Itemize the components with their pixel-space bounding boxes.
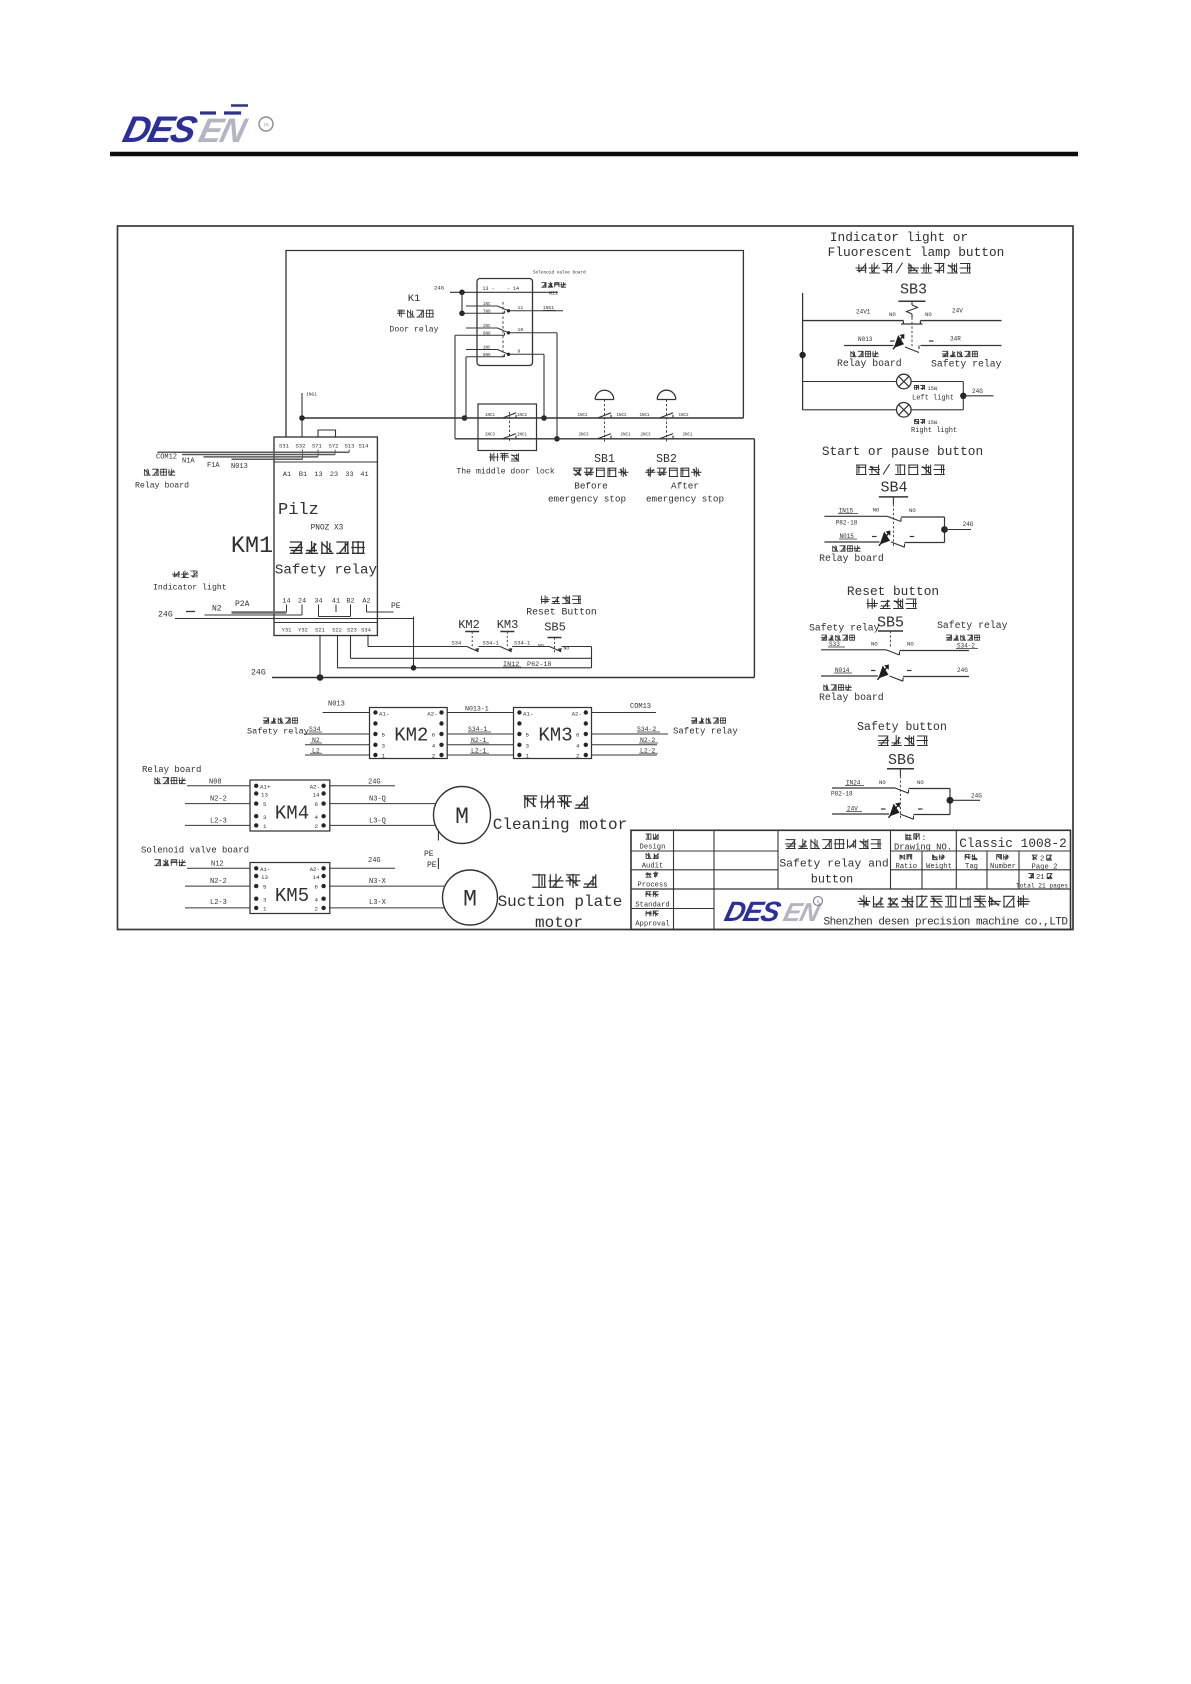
- svg-text:Drawing NO.: Drawing NO.: [894, 843, 952, 853]
- svg-text:L3-Q: L3-Q: [369, 818, 386, 826]
- svg-text:Relay board: Relay board: [837, 358, 902, 369]
- svg-text:Left light: Left light: [912, 395, 954, 403]
- svg-text:NO: NO: [909, 507, 916, 514]
- svg-text:P82-18: P82-18: [836, 520, 858, 527]
- svg-text:Fluorescent lamp button: Fluorescent lamp button: [828, 245, 1005, 260]
- svg-text:N12: N12: [211, 861, 224, 869]
- svg-text:1NG1: 1NG1: [306, 392, 317, 398]
- svg-text:emergency stop: emergency stop: [548, 494, 626, 505]
- svg-text:S34-1: S34-1: [514, 641, 530, 647]
- svg-text:S22: S22: [332, 628, 342, 634]
- svg-text:PNOZ X3: PNOZ X3: [311, 525, 344, 533]
- svg-text:5: 5: [263, 884, 267, 891]
- svg-text:4: 4: [315, 896, 319, 903]
- svg-text:N3-Q: N3-Q: [369, 796, 386, 804]
- svg-text:- 14: - 14: [507, 286, 519, 292]
- svg-text:KM2: KM2: [394, 725, 428, 747]
- svg-text:COM13: COM13: [630, 703, 651, 711]
- svg-text:SB3: SB3: [900, 282, 927, 299]
- svg-text:14: 14: [313, 791, 320, 798]
- svg-text:Design: Design: [640, 844, 666, 852]
- svg-text:S23: S23: [347, 628, 357, 634]
- svg-text:6: 6: [432, 732, 436, 739]
- svg-text:KM3: KM3: [497, 618, 519, 632]
- svg-text:Before: Before: [574, 481, 607, 492]
- svg-text:Ratio: Ratio: [896, 863, 918, 871]
- svg-text:4: 4: [432, 742, 436, 749]
- svg-text:11: 11: [518, 305, 524, 311]
- svg-text:Right light: Right light: [911, 427, 957, 435]
- svg-text:24G: 24G: [957, 667, 968, 674]
- svg-text:COM12: COM12: [156, 454, 177, 462]
- svg-text:A1-: A1-: [260, 866, 270, 873]
- svg-text:34R: 34R: [950, 336, 961, 343]
- svg-text:A1: A1: [283, 471, 291, 479]
- svg-text:Standard: Standard: [635, 901, 670, 909]
- svg-text:Number: Number: [990, 863, 1016, 871]
- svg-text:PE: PE: [427, 861, 437, 870]
- svg-text:Safety relay: Safety relay: [247, 727, 309, 737]
- svg-text:S34-1: S34-1: [483, 641, 499, 647]
- svg-text:24G: 24G: [434, 285, 444, 292]
- svg-text:2NC3: 2NC3: [579, 434, 590, 438]
- svg-text:A2: A2: [362, 598, 370, 606]
- svg-text:A1-: A1-: [523, 711, 533, 718]
- svg-text:TM: TM: [263, 125, 269, 129]
- svg-text:N013: N013: [858, 336, 873, 343]
- svg-text:Pilz: Pilz: [278, 501, 319, 520]
- svg-text:IN12: IN12: [503, 661, 519, 669]
- svg-text:S34: S34: [361, 628, 371, 634]
- svg-text:1NC2: 1NC2: [617, 414, 628, 418]
- svg-text:24G: 24G: [368, 857, 381, 865]
- svg-text:Cleaning motor: Cleaning motor: [493, 816, 627, 834]
- svg-text:1NC1: 1NC1: [578, 414, 589, 418]
- svg-text:7NO: 7NO: [483, 311, 491, 315]
- svg-text:A1+: A1+: [260, 783, 271, 790]
- svg-text:Safety relay: Safety relay: [809, 623, 880, 634]
- svg-text:Suction plate: Suction plate: [498, 893, 623, 911]
- svg-text:3: 3: [263, 814, 267, 821]
- svg-text:N08: N08: [209, 779, 222, 787]
- svg-text:13: 13: [261, 791, 268, 798]
- svg-text:S34: S34: [452, 641, 462, 647]
- svg-text:2NC3: 2NC3: [641, 434, 652, 438]
- svg-text:Relay board: Relay board: [819, 692, 884, 703]
- svg-text:S14: S14: [358, 443, 369, 450]
- svg-text:Safety relay: Safety relay: [275, 563, 378, 579]
- svg-text:15W: 15W: [928, 420, 938, 426]
- svg-text:6: 6: [315, 801, 319, 808]
- svg-text:13: 13: [314, 471, 322, 479]
- svg-text:Relay board: Relay board: [135, 481, 189, 491]
- svg-text:1: 1: [382, 753, 386, 760]
- svg-text:2: 2: [1040, 856, 1044, 864]
- svg-text:24G: 24G: [971, 793, 982, 800]
- svg-text:34: 34: [314, 598, 322, 606]
- svg-text:15W: 15W: [928, 386, 938, 392]
- svg-text:KM3: KM3: [538, 725, 572, 747]
- svg-text:Relay board: Relay board: [142, 765, 201, 775]
- svg-text:Reset Button: Reset Button: [526, 607, 597, 618]
- svg-text:6: 6: [576, 732, 580, 739]
- svg-text:41: 41: [332, 598, 340, 606]
- svg-text:SB1: SB1: [594, 453, 615, 466]
- svg-text:S21: S21: [315, 628, 325, 634]
- svg-text:24G: 24G: [972, 388, 983, 395]
- svg-text:Audit: Audit: [642, 863, 664, 871]
- svg-text:23: 23: [330, 471, 338, 479]
- svg-text:SB2: SB2: [656, 453, 677, 466]
- svg-text:N2-2: N2-2: [210, 878, 227, 886]
- svg-text:W11: W11: [549, 291, 558, 297]
- svg-text:NO: NO: [879, 779, 886, 786]
- svg-text:SB5: SB5: [877, 615, 904, 632]
- svg-text:Safety relay: Safety relay: [937, 620, 1008, 631]
- svg-text:Y32: Y32: [298, 628, 308, 634]
- svg-text:N013: N013: [231, 463, 248, 471]
- svg-text:2: 2: [315, 823, 319, 830]
- svg-text:24V1: 24V1: [856, 309, 871, 316]
- svg-text:1NC: 1NC: [483, 346, 491, 350]
- svg-text:Indicator light or: Indicator light or: [830, 230, 968, 245]
- svg-text:P82-18: P82-18: [831, 791, 853, 798]
- svg-text:Approval: Approval: [635, 921, 670, 929]
- svg-text:KM5: KM5: [275, 885, 309, 907]
- svg-text:NO: NO: [871, 641, 878, 648]
- svg-text:A2-: A2-: [427, 711, 437, 718]
- svg-text:K1: K1: [408, 293, 421, 305]
- svg-text:KM1: KM1: [231, 533, 273, 560]
- svg-text:1NC: 1NC: [483, 303, 491, 307]
- svg-text:24V: 24V: [952, 308, 963, 315]
- svg-text:Relay board: Relay board: [819, 553, 884, 564]
- svg-text:Tag: Tag: [965, 863, 978, 871]
- svg-text:After: After: [671, 481, 699, 492]
- svg-text:B2: B2: [346, 598, 354, 606]
- svg-text:1NC1: 1NC1: [640, 414, 651, 418]
- svg-text:2: 2: [576, 753, 580, 760]
- svg-text:2NC3: 2NC3: [485, 434, 496, 438]
- svg-text:1NC2: 1NC2: [679, 414, 690, 418]
- svg-text:Solenoid valve board: Solenoid valve board: [141, 846, 249, 856]
- svg-text:N2-2: N2-2: [210, 796, 227, 804]
- svg-text:emergency stop: emergency stop: [646, 494, 724, 505]
- svg-text:Safety button: Safety button: [857, 721, 947, 734]
- svg-text:2NC1: 2NC1: [683, 434, 694, 438]
- svg-text:SB4: SB4: [880, 480, 907, 497]
- svg-text:3: 3: [382, 742, 386, 749]
- svg-text:S32: S32: [295, 443, 305, 450]
- svg-text:NO: NO: [917, 779, 924, 786]
- svg-text:L2-3: L2-3: [210, 818, 227, 826]
- svg-text:L2-3: L2-3: [210, 899, 227, 907]
- svg-text:24G: 24G: [158, 611, 173, 620]
- svg-text:Y31: Y31: [282, 628, 292, 634]
- svg-text:Safety relay: Safety relay: [673, 727, 738, 737]
- svg-text:6: 6: [315, 884, 319, 891]
- svg-text:Solenoid valve board: Solenoid valve board: [533, 271, 586, 276]
- svg-text:SB6: SB6: [888, 752, 915, 769]
- svg-text:A1-: A1-: [379, 711, 389, 718]
- svg-text:6NO: 6NO: [483, 333, 491, 337]
- svg-text:N2: N2: [212, 605, 222, 614]
- svg-text:NO: NO: [564, 646, 570, 652]
- svg-text:NO: NO: [889, 311, 896, 318]
- svg-text:L3-X: L3-X: [369, 899, 387, 907]
- svg-text:DES: DES: [721, 896, 784, 928]
- svg-text:KM4: KM4: [275, 803, 309, 825]
- svg-text:10: 10: [518, 327, 524, 333]
- svg-text:N1A: N1A: [182, 458, 195, 466]
- svg-text:Shenzhen desen precision machi: Shenzhen desen precision machine co.,LTD: [823, 917, 1068, 929]
- svg-text:Safety relay: Safety relay: [931, 359, 1002, 370]
- svg-text:Process: Process: [637, 882, 667, 890]
- svg-text:33: 33: [345, 471, 353, 479]
- svg-text:Total 21 pages: Total 21 pages: [1016, 883, 1068, 890]
- svg-text:2NC1: 2NC1: [621, 434, 632, 438]
- svg-text:5: 5: [382, 732, 386, 739]
- svg-text:S13: S13: [344, 443, 354, 450]
- svg-text:13 -: 13 -: [483, 286, 495, 292]
- svg-text:PE: PE: [424, 850, 434, 859]
- svg-text:NO: NO: [925, 311, 932, 318]
- svg-text:Door relay: Door relay: [389, 325, 438, 335]
- svg-text:Safety relay and: Safety relay and: [779, 859, 888, 871]
- svg-text:N013-1: N013-1: [465, 706, 489, 713]
- svg-text:14: 14: [282, 598, 290, 606]
- svg-text:1NC1: 1NC1: [485, 414, 496, 418]
- svg-text:41: 41: [360, 471, 368, 479]
- svg-text:Indicator light: Indicator light: [153, 583, 227, 593]
- svg-text:3: 3: [263, 896, 267, 903]
- svg-text:N013: N013: [328, 701, 345, 709]
- svg-text:A2-: A2-: [310, 783, 320, 790]
- svg-text:Weight: Weight: [926, 863, 952, 871]
- svg-text:24G: 24G: [963, 521, 974, 528]
- svg-text:14: 14: [313, 874, 320, 881]
- svg-text:F1A: F1A: [207, 462, 220, 470]
- svg-text:Page 2: Page 2: [1032, 864, 1058, 872]
- svg-text:9: 9: [518, 349, 521, 355]
- svg-text:4: 4: [315, 814, 319, 821]
- svg-text:A2-: A2-: [310, 866, 320, 873]
- svg-text:13: 13: [261, 874, 268, 881]
- svg-text:PE: PE: [391, 602, 401, 611]
- svg-text:2NC1: 2NC1: [517, 434, 528, 438]
- svg-text:2: 2: [315, 906, 319, 913]
- svg-text:5: 5: [263, 801, 267, 808]
- svg-text:1: 1: [526, 753, 530, 760]
- svg-text:S72: S72: [328, 443, 338, 450]
- svg-text:1: 1: [263, 823, 267, 830]
- svg-text:P62-18: P62-18: [527, 661, 551, 669]
- svg-text:24: 24: [298, 598, 306, 606]
- svg-text:P2A: P2A: [235, 600, 250, 609]
- svg-text:1: 1: [263, 906, 267, 913]
- svg-text:NO: NO: [538, 643, 544, 649]
- svg-text:Start or pause button: Start or pause button: [822, 444, 983, 459]
- svg-text:4: 4: [576, 742, 580, 749]
- svg-text:NO: NO: [873, 507, 880, 514]
- svg-text:2NC: 2NC: [483, 325, 491, 329]
- svg-text:SB5: SB5: [544, 621, 566, 635]
- svg-text:24G: 24G: [251, 669, 266, 678]
- svg-text:24G: 24G: [368, 779, 381, 787]
- svg-text:EN: EN: [195, 112, 251, 149]
- svg-text:2: 2: [432, 753, 436, 760]
- svg-text:M: M: [455, 804, 469, 830]
- svg-text:21: 21: [1036, 874, 1044, 882]
- svg-text:The middle door lock: The middle door lock: [456, 467, 554, 477]
- svg-text:1NC2: 1NC2: [517, 414, 528, 418]
- svg-text:KM2: KM2: [458, 618, 480, 632]
- svg-text:N3-X: N3-X: [369, 878, 387, 886]
- svg-text:S71: S71: [312, 443, 323, 450]
- svg-text:DES: DES: [119, 109, 201, 150]
- svg-text:NO: NO: [907, 641, 914, 648]
- svg-text:M: M: [463, 887, 477, 913]
- svg-text:3: 3: [526, 742, 530, 749]
- svg-text:5: 5: [526, 732, 530, 739]
- svg-text:S31: S31: [279, 443, 290, 450]
- svg-text:Reset button: Reset button: [847, 584, 939, 599]
- svg-text:A2-: A2-: [572, 711, 582, 718]
- svg-text:button: button: [811, 873, 853, 887]
- svg-text:Classic 1008-2: Classic 1008-2: [959, 836, 1067, 851]
- svg-text:B1: B1: [299, 471, 307, 479]
- svg-text:motor: motor: [535, 914, 583, 932]
- svg-text:8NO: 8NO: [483, 354, 491, 358]
